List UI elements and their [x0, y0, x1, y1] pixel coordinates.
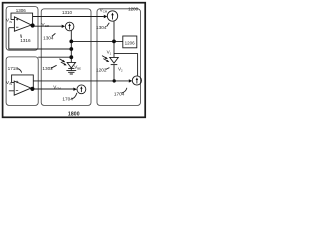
svg-text:1704: 1704	[114, 92, 125, 97]
svg-text:IN: IN	[9, 20, 12, 24]
svg-text:1202: 1202	[96, 68, 107, 73]
svg-text:BE: BE	[77, 66, 81, 70]
svg-text:1304: 1304	[96, 25, 107, 30]
svg-text:1704: 1704	[62, 97, 73, 102]
svg-text:1304: 1304	[43, 35, 54, 40]
svg-text:1316: 1316	[20, 38, 31, 43]
svg-text:1206: 1206	[125, 41, 136, 46]
svg-text:CM: CM	[103, 10, 108, 14]
svg-text:1: 1	[110, 52, 112, 56]
svg-text:1718: 1718	[8, 66, 19, 71]
svg-text:1310: 1310	[62, 10, 73, 15]
svg-text:IN: IN	[9, 82, 12, 86]
svg-text:CM: CM	[45, 24, 50, 28]
svg-text:2: 2	[121, 69, 123, 73]
svg-text:1302: 1302	[42, 66, 53, 71]
svg-text:1800: 1800	[68, 112, 80, 118]
svg-text:1306: 1306	[16, 8, 27, 13]
svg-text:CM: CM	[56, 87, 61, 91]
svg-text:1200: 1200	[128, 6, 139, 11]
